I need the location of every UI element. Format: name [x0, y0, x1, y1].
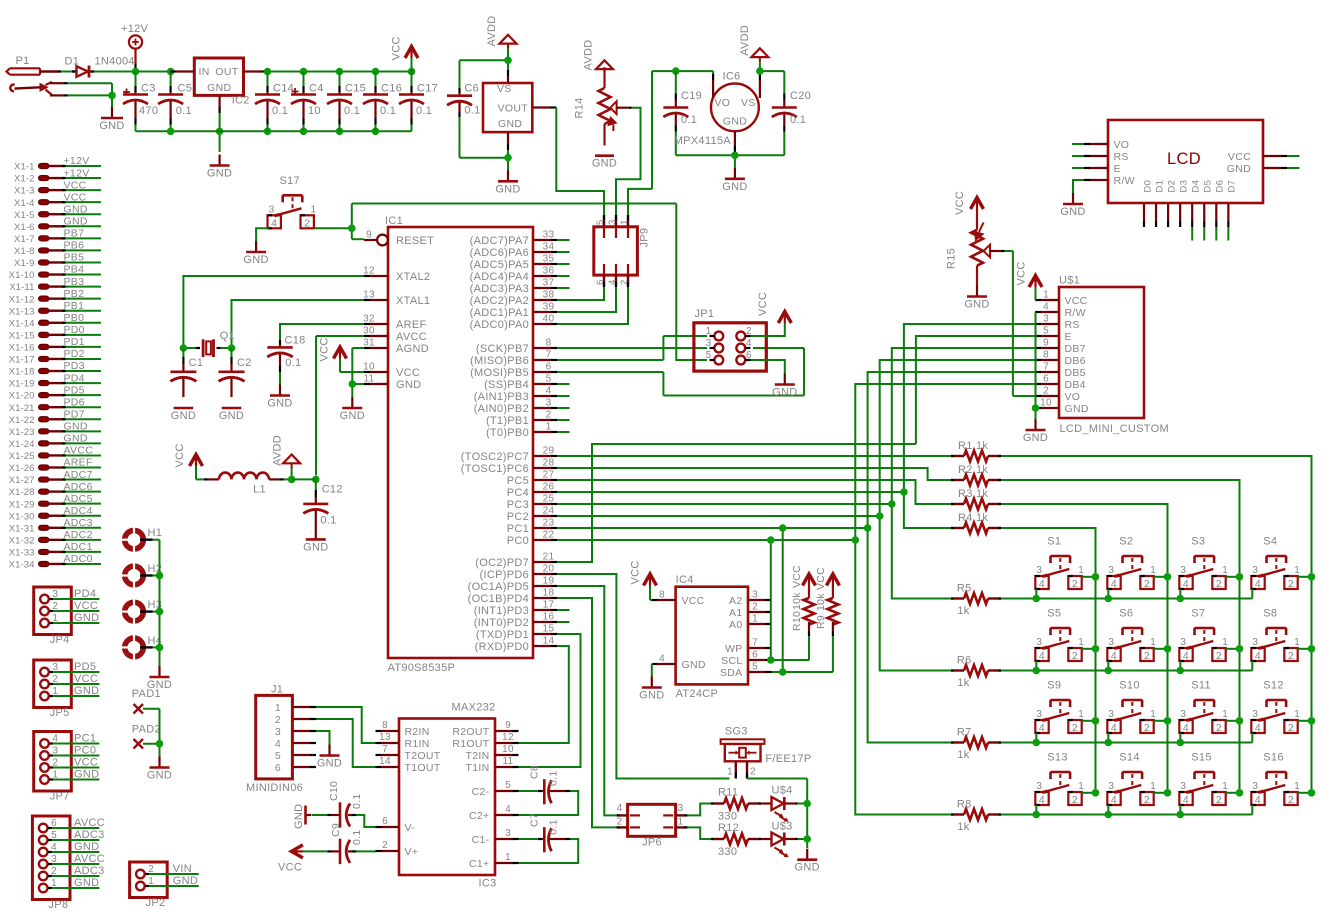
svg-text:OUT: OUT: [215, 66, 238, 78]
IC1 pin 31 AGND: [363, 338, 429, 356]
svg-text:AGND: AGND: [396, 343, 429, 355]
svg-text:A0: A0: [729, 619, 742, 631]
svg-text:PD6: PD6: [64, 396, 85, 408]
svg-text:VCC: VCC: [1228, 151, 1251, 163]
mounting hole H4: [121, 634, 163, 661]
svg-text:R3 1k: R3 1k: [958, 488, 988, 500]
wire PAD1 PAD2 to GND: [143, 709, 160, 757]
svg-text:22: 22: [543, 530, 555, 541]
svg-text:+12V: +12V: [64, 167, 90, 179]
svg-text:29: 29: [543, 446, 555, 457]
svg-text:4: 4: [1183, 650, 1189, 662]
svg-text:1: 1: [311, 204, 317, 215]
svg-text:PB1: PB1: [64, 300, 85, 312]
svg-text:D1: D1: [65, 56, 80, 68]
svg-text:0.1: 0.1: [351, 794, 363, 810]
svg-text:GND: GND: [1227, 163, 1251, 175]
switch S2: [1107, 536, 1156, 590]
capacitor C5 0.1: [158, 72, 192, 132]
svg-text:DB5: DB5: [1065, 367, 1086, 379]
svg-text:X1-4: X1-4: [14, 198, 34, 209]
svg-text:X1-15: X1-15: [9, 330, 35, 341]
junction: [108, 92, 116, 100]
svg-text:1: 1: [1150, 565, 1156, 576]
junction: [348, 225, 356, 233]
svg-text:8: 8: [659, 590, 665, 601]
svg-text:V-: V-: [405, 822, 416, 834]
svg-text:R11: R11: [718, 787, 738, 799]
svg-text:S7: S7: [1191, 608, 1205, 620]
IC1 pin 33 (ADC7)PA7: [470, 230, 557, 248]
wire AVDD to VS: [460, 60, 509, 70]
junction: [1033, 667, 1041, 675]
svg-text:23: 23: [543, 518, 555, 529]
svg-text:3: 3: [1108, 565, 1114, 576]
ground GND (C2): [219, 408, 244, 422]
svg-text:GND: GND: [64, 433, 88, 445]
junction: [779, 524, 787, 532]
svg-text:VIN: VIN: [173, 863, 192, 875]
svg-text:3: 3: [752, 590, 758, 601]
wire SDA net: [772, 528, 833, 672]
svg-text:C8: C8: [528, 765, 540, 779]
svg-text:D2: D2: [1166, 180, 1177, 193]
svg-text:1: 1: [505, 852, 511, 863]
trimmer R14: [573, 40, 631, 146]
svg-text:0.1: 0.1: [548, 819, 560, 835]
svg-text:SG3: SG3: [725, 725, 748, 737]
wire VO to JP9.1: [628, 189, 652, 215]
junction: [864, 524, 872, 532]
IC1 pin 32 AREF: [363, 314, 426, 332]
ground GND rotated (C10): [293, 804, 328, 829]
svg-text:2: 2: [1216, 794, 1222, 806]
svg-text:37: 37: [543, 278, 555, 289]
wire stub: [557, 383, 570, 385]
svg-text:PB6: PB6: [64, 240, 85, 252]
svg-text:3: 3: [1252, 637, 1258, 648]
svg-text:LCD_MINI_CUSTOM: LCD_MINI_CUSTOM: [1060, 423, 1169, 435]
wire R1 to column S4: [1001, 456, 1312, 793]
svg-text:4: 4: [505, 804, 511, 815]
wire C8 loop to C2+: [519, 791, 579, 815]
svg-text:21: 21: [543, 552, 555, 563]
svg-text:2: 2: [750, 767, 756, 778]
svg-text:X1-11: X1-11: [9, 282, 34, 293]
svg-text:(ADC4)PA4: (ADC4)PA4: [470, 271, 529, 283]
switch S13: [1035, 752, 1084, 806]
svg-text:C16: C16: [381, 83, 402, 95]
trimmer R15: [946, 209, 1005, 286]
svg-text:(INT0)PD2: (INT0)PD2: [474, 617, 529, 629]
wire U$3 to GND rail: [798, 838, 808, 840]
svg-text:2: 2: [752, 602, 758, 613]
switch S14: [1107, 752, 1156, 806]
svg-text:R4 1k: R4 1k: [958, 512, 988, 524]
ground GND (IC6): [722, 168, 747, 193]
svg-text:3: 3: [1036, 709, 1042, 720]
svg-text:4: 4: [1039, 650, 1045, 662]
connector pin X1-17 net PD2: [9, 348, 101, 365]
svg-text:VCC: VCC: [1015, 261, 1027, 285]
wire SCL net: [771, 540, 809, 660]
svg-text:J1: J1: [271, 684, 283, 696]
svg-text:2: 2: [1216, 578, 1222, 590]
svg-text:13: 13: [363, 290, 375, 301]
junction: [852, 536, 860, 544]
svg-text:8: 8: [1043, 350, 1049, 361]
svg-text:PC5: PC5: [507, 475, 529, 487]
svg-text:2: 2: [1288, 650, 1294, 662]
svg-text:VCC: VCC: [391, 36, 403, 60]
svg-text:R7: R7: [957, 727, 972, 739]
svg-text:(ADC2)PA2: (ADC2)PA2: [470, 295, 529, 307]
wire VS GND node: [460, 150, 509, 171]
svg-text:AVCC: AVCC: [74, 853, 105, 865]
IC1 pin 17 (INT1)PD3: [474, 600, 557, 618]
svg-text:2: 2: [1072, 722, 1078, 734]
IC1 pin 35 (ADC5)PA5: [470, 254, 557, 272]
svg-text:GND: GND: [317, 758, 342, 770]
switch S5: [1035, 608, 1084, 662]
svg-text:XTAL2: XTAL2: [396, 271, 430, 283]
svg-text:1: 1: [1150, 781, 1156, 792]
wire stub: [557, 621, 570, 623]
svg-text:4: 4: [1183, 794, 1189, 806]
svg-text:4: 4: [1183, 578, 1189, 590]
pin header JP8: [32, 816, 105, 911]
svg-text:VCC: VCC: [791, 565, 803, 588]
svg-text:2: 2: [1216, 650, 1222, 662]
svg-text:1: 1: [1150, 709, 1156, 720]
svg-text:D7: D7: [1227, 180, 1238, 193]
svg-text:VCC: VCC: [682, 595, 705, 607]
svg-text:U$3: U$3: [772, 820, 793, 832]
connector pin X1-34 net ADC0: [9, 553, 101, 570]
svg-text:C1: C1: [189, 357, 204, 369]
IC1 pin 2 (T1)PB1: [486, 410, 557, 428]
svg-text:PB0: PB0: [64, 312, 85, 324]
wire PC6 row to R2: [557, 468, 951, 480]
svg-text:10: 10: [1040, 398, 1052, 409]
IC1 pin 29 (TOSC2)PC7: [461, 446, 557, 464]
connector pin X1-28 net ADC6: [9, 481, 101, 498]
svg-text:7: 7: [546, 350, 552, 361]
resistor R10 10k: [791, 565, 816, 636]
svg-text:6: 6: [546, 362, 552, 373]
svg-text:S15: S15: [1191, 752, 1211, 764]
svg-text:S5: S5: [1047, 608, 1061, 620]
svg-text:39: 39: [543, 302, 555, 313]
svg-text:X1-20: X1-20: [9, 391, 35, 402]
svg-text:(INT1)PD3: (INT1)PD3: [474, 605, 529, 617]
svg-text:2: 2: [1043, 386, 1049, 397]
svg-text:PC1: PC1: [507, 523, 529, 535]
svg-text:4: 4: [546, 386, 552, 397]
svg-text:ADC1: ADC1: [64, 541, 93, 553]
junction: [156, 740, 164, 748]
wire U$4 to GND rail: [798, 803, 808, 805]
svg-text:VCC: VCC: [74, 600, 98, 612]
svg-text:GND: GND: [682, 659, 706, 671]
capacitor C1: [170, 348, 203, 397]
svg-text:10k: 10k: [791, 592, 803, 610]
svg-text:GND: GND: [74, 841, 99, 853]
junction: [767, 536, 775, 544]
mounting hole H1: [121, 526, 163, 553]
svg-text:40: 40: [543, 314, 555, 325]
resistor R8 1k: [951, 799, 1001, 834]
IC1 pin 39 (ADC1)PA1: [470, 302, 557, 320]
wire PC7 row to R1: [557, 455, 951, 457]
wire keypad row 2: [1001, 649, 1312, 671]
svg-text:(SS)PB4: (SS)PB4: [484, 379, 529, 391]
svg-text:X1-24: X1-24: [9, 439, 35, 450]
svg-text:X1-22: X1-22: [9, 415, 35, 426]
display U$1 LCD_MINI_CUSTOM: [1035, 275, 1169, 436]
svg-text:PAD2: PAD2: [132, 724, 161, 736]
svg-text:VCC: VCC: [396, 367, 420, 379]
wire R2 to column S3: [1001, 480, 1240, 793]
svg-text:R2OUT: R2OUT: [452, 726, 489, 738]
svg-text:S2: S2: [1119, 536, 1133, 548]
resistor R11 330: [711, 787, 761, 823]
svg-text:VCC: VCC: [74, 673, 98, 685]
svg-text:6: 6: [1043, 374, 1049, 385]
LED U$4: [761, 785, 798, 822]
svg-text:(ADC1)PA1: (ADC1)PA1: [470, 307, 529, 319]
svg-text:1: 1: [678, 817, 684, 828]
svg-text:24: 24: [543, 506, 555, 517]
pin header JP4: [34, 587, 100, 646]
wire PC4 row: [557, 491, 904, 493]
svg-text:3: 3: [706, 338, 712, 349]
svg-text:GND: GND: [74, 612, 99, 624]
junction: [1033, 739, 1041, 747]
connector pin X1-31 net ADC3: [9, 517, 101, 534]
IC1 pin 27 PC5: [507, 470, 557, 488]
svg-text:AVDD: AVDD: [739, 25, 751, 56]
svg-text:GND: GND: [173, 875, 198, 887]
eeprom IC4 AT24CP: [652, 574, 772, 700]
svg-text:U$4: U$4: [772, 785, 793, 797]
svg-text:X1-2: X1-2: [14, 174, 34, 185]
junction: [672, 67, 680, 75]
IC1 pin 14 (RXD)PD0: [475, 636, 557, 654]
svg-text:D4: D4: [1191, 180, 1202, 193]
svg-text:2: 2: [1072, 578, 1078, 590]
svg-text:1: 1: [1222, 709, 1228, 720]
buzzer SG3 F/EE17P: [721, 725, 812, 778]
svg-text:RS: RS: [1065, 319, 1080, 331]
svg-text:8: 8: [546, 338, 552, 349]
svg-text:3: 3: [1252, 709, 1258, 720]
svg-text:X1-23: X1-23: [9, 427, 35, 438]
svg-text:X1-7: X1-7: [14, 234, 34, 245]
svg-text:VO: VO: [715, 97, 731, 109]
svg-text:MPX4115A: MPX4115A: [674, 135, 732, 147]
svg-text:R5: R5: [957, 583, 972, 595]
IC1 pin 10 VCC: [363, 362, 420, 380]
switch S10: [1107, 680, 1156, 734]
svg-text:0.1: 0.1: [285, 357, 301, 369]
svg-text:4: 4: [1255, 650, 1261, 662]
switch S11: [1179, 680, 1228, 734]
svg-text:2: 2: [1288, 794, 1294, 806]
wire RS vertical to R4: [904, 492, 951, 528]
svg-text:VCC: VCC: [74, 757, 98, 769]
wire VO rail: [652, 71, 713, 189]
svg-text:10: 10: [502, 744, 514, 755]
svg-text:3: 3: [607, 219, 618, 225]
svg-text:(OC1A)PD5: (OC1A)PD5: [468, 581, 529, 593]
inductor L1: [196, 473, 292, 496]
svg-text:330: 330: [718, 846, 737, 858]
crystal Q1: [183, 330, 235, 357]
svg-text:R2IN: R2IN: [405, 726, 430, 738]
IC1 pin 36 (ADC4)PA4: [470, 266, 557, 284]
ground GND (LED): [795, 849, 820, 874]
wire PD0 to R1OUT: [519, 646, 569, 743]
wire PD6 to SG3.1: [557, 574, 730, 779]
svg-text:(TOSC2)PC7: (TOSC2)PC7: [461, 451, 529, 463]
svg-text:1k: 1k: [957, 749, 969, 761]
svg-text:SDA: SDA: [720, 667, 743, 679]
svg-text:ADC3: ADC3: [74, 865, 105, 877]
supply AVDD (IC6): [739, 25, 768, 74]
connector pin X1-20 net PD5: [9, 384, 101, 401]
svg-text:(ADC0)PA0: (ADC0)PA0: [470, 319, 529, 331]
wire XTAL2 net: [183, 276, 364, 348]
svg-text:PC0: PC0: [74, 745, 96, 757]
wire stub: [557, 431, 570, 433]
ground GND (PAD): [147, 757, 172, 782]
supply VCC arrow (L1): [174, 443, 202, 479]
svg-text:JP6: JP6: [642, 837, 662, 849]
svg-text:ADC2: ADC2: [64, 529, 93, 541]
wire JP6.1 to R12: [687, 827, 711, 839]
resistor R1 1k: [951, 440, 1001, 462]
IC1 pin 20 (ICP)PD6: [480, 564, 557, 582]
svg-text:VCC: VCC: [64, 179, 87, 191]
switch S17: [268, 175, 317, 229]
svg-text:28: 28: [543, 458, 555, 469]
svg-text:S13: S13: [1047, 752, 1067, 764]
svg-text:WP: WP: [725, 643, 743, 655]
svg-text:IC3: IC3: [479, 878, 497, 890]
svg-text:X1-19: X1-19: [9, 379, 35, 390]
svg-text:ADC6: ADC6: [64, 481, 93, 493]
svg-text:AT24CP: AT24CP: [676, 688, 719, 700]
svg-text:C18: C18: [285, 335, 306, 347]
svg-text:470: 470: [139, 105, 158, 117]
svg-text:36: 36: [543, 266, 555, 277]
svg-text:T1IN: T1IN: [466, 762, 490, 774]
svg-text:3: 3: [1252, 781, 1258, 792]
wire JP1.5 feed: [688, 359, 707, 361]
ground GND (S17): [243, 241, 268, 266]
IC1 pin 22 PC0: [507, 530, 557, 548]
svg-text:5: 5: [546, 374, 552, 385]
svg-text:0.1: 0.1: [380, 105, 396, 117]
junction: [1033, 811, 1041, 819]
junction: [504, 154, 512, 162]
connector pin X1-5 net GND: [14, 203, 101, 220]
svg-text:0.1: 0.1: [416, 105, 432, 117]
connector pin X1-22 net PD7: [9, 408, 101, 425]
IC1 pin 16 (INT0)PD2: [474, 612, 557, 630]
svg-text:R10: R10: [791, 611, 803, 631]
svg-text:AT90S8535P: AT90S8535P: [388, 662, 456, 674]
svg-text:(ADC6)PA6: (ADC6)PA6: [470, 247, 529, 259]
svg-text:3: 3: [1043, 314, 1049, 325]
wire JP9.6 to PA2: [557, 287, 604, 300]
svg-text:X1-14: X1-14: [9, 318, 35, 329]
junction: [349, 380, 357, 388]
IC1 pin 18 (OC1B)PD4: [468, 588, 557, 606]
svg-text:DB4: DB4: [1065, 379, 1086, 391]
svg-text:0.1: 0.1: [681, 114, 697, 126]
svg-text:VCC: VCC: [629, 560, 641, 584]
svg-text:X1-29: X1-29: [9, 499, 35, 510]
svg-text:IC6: IC6: [723, 70, 741, 82]
svg-text:2: 2: [1288, 578, 1294, 590]
wire SG3.2 to GND rail: [747, 779, 807, 849]
svg-text:D0: D0: [1142, 180, 1153, 193]
wire VCC top rail: [268, 71, 412, 73]
ground GND (JP1): [772, 374, 797, 399]
capacitor C3 470: [123, 72, 158, 132]
regulator U2 VS/VOUT/GND: [483, 70, 556, 150]
svg-text:R14: R14: [573, 97, 585, 118]
IC1 pin 28 (TOSC1)PC6: [461, 458, 557, 476]
svg-text:1: 1: [1294, 637, 1300, 648]
svg-text:1: 1: [1222, 637, 1228, 648]
svg-text:GND: GND: [207, 82, 231, 94]
svg-text:1: 1: [706, 326, 712, 337]
IC1 pin 21 (OC2)PD7: [475, 552, 557, 570]
svg-text:PD4: PD4: [64, 372, 85, 384]
supply VCC arrow (R15): [954, 191, 984, 215]
svg-text:20: 20: [543, 564, 555, 575]
svg-text:C3: C3: [141, 83, 156, 95]
svg-text:3: 3: [505, 828, 511, 839]
connector pin X1-30 net ADC4: [9, 505, 101, 522]
svg-text:3: 3: [1108, 781, 1114, 792]
svg-text:3: 3: [546, 398, 552, 409]
svg-text:ADC0: ADC0: [64, 553, 93, 565]
svg-text:VCC: VCC: [174, 443, 186, 467]
svg-text:S14: S14: [1119, 752, 1139, 764]
svg-text:GND: GND: [723, 116, 747, 128]
svg-text:4: 4: [1111, 578, 1117, 590]
svg-text:IN: IN: [199, 66, 210, 78]
svg-text:S4: S4: [1263, 536, 1277, 548]
resistor R6 1k: [951, 655, 1001, 690]
svg-text:X1-31: X1-31: [9, 523, 35, 534]
svg-text:2: 2: [1144, 650, 1150, 662]
svg-text:11: 11: [503, 756, 514, 767]
svg-text:S10: S10: [1119, 680, 1139, 692]
svg-text:ADC5: ADC5: [64, 493, 93, 505]
svg-text:(MISO)PB6: (MISO)PB6: [470, 355, 529, 367]
IC1 pin 6 (MOSI)PB5: [470, 362, 557, 380]
svg-text:(ADC5)PA5: (ADC5)PA5: [470, 259, 529, 271]
junction: [216, 128, 224, 136]
svg-text:C6: C6: [464, 83, 479, 95]
IC1 pin 1 (T0)PB0: [486, 422, 557, 440]
svg-text:VCC: VCC: [815, 567, 827, 590]
